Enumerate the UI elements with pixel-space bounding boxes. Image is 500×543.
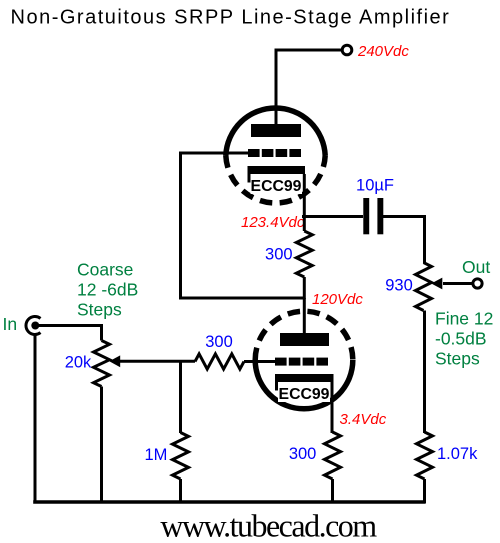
label box ECC99 upper [251, 177, 303, 195]
tube U2 plate [280, 333, 329, 346]
jack In [26, 316, 41, 334]
node junction 1M branch [179, 361, 182, 433]
svg-text:123.4Vdc: 123.4Vdc [241, 214, 305, 231]
svg-text:Fine 12: Fine 12 [435, 308, 493, 328]
svg-text:In: In [3, 314, 18, 334]
wire cathode U1 lead down to node [303, 174, 306, 218]
svg-text:1M: 1M [144, 446, 167, 464]
resistor R1 300 upper cathode [303, 216, 306, 231]
svg-text:ECC99: ECC99 [251, 178, 302, 195]
wire feedback vertical [181, 152, 306, 299]
svg-text:www.tubecad.com: www.tubecad.com [160, 508, 377, 543]
svg-text:300: 300 [265, 245, 293, 263]
wire between pots [423, 311, 426, 434]
tube U1 envelope dashed bottom half [226, 156, 325, 204]
svg-text:Steps: Steps [77, 299, 122, 319]
wire top horizontal to 240Vdc terminal [275, 49, 343, 52]
wire grid U1 from feedback [181, 152, 250, 155]
tube U2 cathode [275, 374, 334, 382]
svg-text:20k: 20k [65, 354, 92, 372]
resistor R3 1.07k [417, 432, 433, 479]
wire cathode U2 lead down [331, 382, 334, 433]
svg-text:10µF: 10µF [356, 177, 394, 195]
svg-text:300: 300 [205, 333, 233, 351]
potentiometer VR2 930 fine [416, 263, 432, 311]
tube U2 envelope dashed top half [255, 311, 353, 360]
svg-text:1.07k: 1.07k [437, 445, 478, 463]
wire wiper to grid [119, 360, 195, 363]
tube U1 plate [251, 124, 301, 137]
capacitor C1 10uF [363, 198, 369, 234]
wire grid U2 from volume [244, 360, 276, 363]
wire ground rail [33, 500, 426, 504]
tube U2 envelope solid bottom half [255, 360, 353, 409]
svg-text:12 -6dB: 12 -6dB [77, 280, 138, 300]
wire out branch down [423, 215, 426, 263]
svg-text:Non-Gratuitous SRPP Line-Stage: Non-Gratuitous SRPP Line-Stage Amplifier [11, 7, 451, 29]
wire jack sleeve down [34, 334, 37, 503]
svg-text:Coarse: Coarse [77, 260, 133, 280]
svg-text:120Vdc: 120Vdc [312, 291, 363, 308]
wiper arrow VR2 [431, 278, 442, 290]
tube U1 cathode [248, 166, 306, 174]
wire plate lead lower tube [303, 298, 306, 335]
wiper arrow VR1 [109, 355, 120, 367]
potentiometer VR1 20k coarse [100, 324, 103, 341]
svg-text:Out: Out [462, 257, 490, 277]
wire wiper to out terminal [443, 282, 473, 285]
svg-text:930: 930 [385, 277, 413, 295]
svg-text:Steps: Steps [435, 349, 480, 369]
tube U2 grid dashes [275, 358, 287, 366]
svg-text:300: 300 [289, 445, 317, 463]
resistor R4 1M grid leak [173, 433, 189, 480]
label box ECC99 lower [278, 385, 330, 403]
svg-text:ECC99: ECC99 [279, 386, 330, 403]
wire plate lead upper tube to B+ rail [275, 50, 278, 126]
terminal 240Vdc B+ [342, 45, 352, 55]
svg-text:3.4Vdc: 3.4Vdc [340, 411, 387, 428]
wire capacitor to out branch [383, 215, 425, 218]
wire node to capacitor [302, 215, 363, 218]
tube U1 envelope solid top half [226, 108, 325, 156]
tube U1 grid dashes [248, 149, 260, 157]
svg-text:-0.5dB: -0.5dB [435, 329, 487, 349]
svg-text:240Vdc: 240Vdc [357, 43, 409, 60]
wire jack tip to pot [39, 324, 102, 327]
terminal Out [473, 279, 482, 288]
resistor R2 300 lower cathode [325, 432, 341, 479]
resistor R5 300 grid stopper [195, 354, 244, 369]
